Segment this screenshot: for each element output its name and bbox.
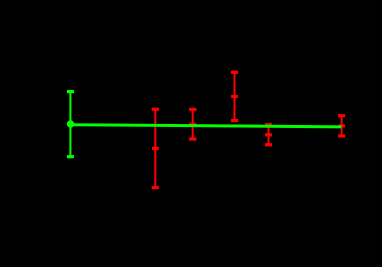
node cap top 5 <box>338 114 345 117</box>
wire <box>69 92 71 157</box>
node cap bottom 1 <box>152 186 159 189</box>
wire <box>268 125 270 145</box>
node marker 1 <box>152 147 159 150</box>
node cap bottom 2 <box>189 137 196 140</box>
node marker 3 <box>231 95 238 98</box>
node cap top 1 <box>152 108 159 111</box>
red error-bar point 1 <box>152 109 159 188</box>
red error-bar point 3 <box>231 72 238 120</box>
green fit line <box>70 125 342 127</box>
node cap top green <box>67 90 74 93</box>
node cap top 2 <box>189 108 196 111</box>
node cap bottom 5 <box>338 134 345 137</box>
wire <box>234 72 236 120</box>
wire <box>192 109 194 139</box>
red error-bar point 4 <box>265 125 272 145</box>
node cap bottom green <box>67 155 74 158</box>
node cap top 3 <box>231 71 238 74</box>
red error-bar point 5 <box>338 116 345 136</box>
node cap bottom 4 <box>265 143 272 146</box>
node marker 4 <box>265 133 272 136</box>
node cap top 4 <box>265 123 272 126</box>
node cap bottom 3 <box>231 119 238 122</box>
green marker point <box>67 120 74 127</box>
wire <box>154 109 156 188</box>
node marker 2 <box>189 123 196 126</box>
node marker 5 <box>338 124 345 127</box>
green error-bar point <box>67 92 74 157</box>
red error-bar point 2 <box>189 109 196 139</box>
wire <box>341 116 343 136</box>
